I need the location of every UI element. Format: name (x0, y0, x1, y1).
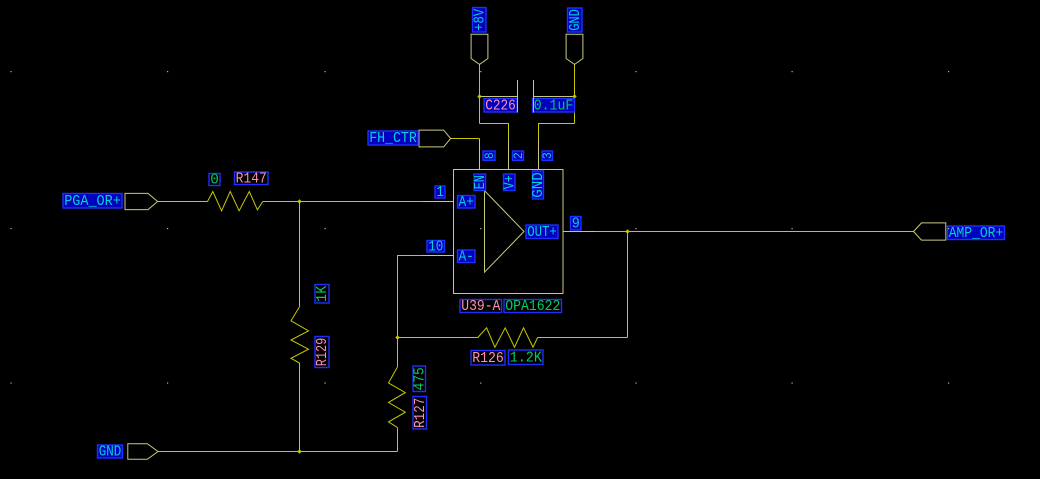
wire capacitor left lead (480, 96, 518, 98)
wire FH_CTR to pin 8 (451, 138, 480, 140)
wire PGA_OR+ to R147 (158, 201, 208, 203)
svg-text:10: 10 (428, 239, 443, 255)
svg-text:0: 0 (210, 173, 219, 189)
svg-text:U39-A: U39-A (461, 299, 500, 315)
wire feedback riser (627, 232, 629, 338)
pin number 1 (435, 185, 445, 201)
svg-text:1: 1 (436, 185, 444, 201)
svg-text:R129: R129 (315, 338, 331, 367)
svg-text:AMP_OR+: AMP_OR+ (949, 226, 1004, 242)
junction R129 GND rail (297, 449, 301, 453)
port PGA_OR+ (125, 193, 158, 209)
pin number 8 (483, 151, 497, 160)
designator R127 (413, 397, 429, 430)
wire GND drop (574, 64, 576, 123)
svg-text:2: 2 (512, 152, 526, 159)
svg-text:PGA_OR+: PGA_OR+ (64, 194, 121, 210)
svg-text:V+: V+ (502, 175, 518, 189)
value OPA1622 (504, 299, 562, 315)
label net PGA_OR+ (63, 194, 122, 210)
svg-text:8: 8 (483, 152, 497, 159)
junction GND capacitor (572, 94, 576, 98)
resistor R127 (389, 367, 406, 428)
designator R129 (315, 337, 331, 368)
value 1.2K (509, 350, 544, 366)
svg-text:R126: R126 (472, 351, 504, 367)
svg-text:R127: R127 (413, 398, 429, 428)
label net AMP_OR+ (948, 226, 1005, 242)
label net GND top (568, 8, 584, 32)
op-amp pin 3 stub (538, 140, 540, 170)
svg-text:GND: GND (99, 445, 122, 461)
op-amp pin 1 stub (423, 201, 454, 203)
designator R126 (471, 351, 505, 367)
wire R126 to riser (538, 337, 628, 339)
label net FH_CTR (368, 131, 418, 147)
wire capacitor right lead (534, 96, 575, 98)
svg-text:R147: R147 (236, 171, 267, 187)
pin name A- (458, 249, 476, 265)
wire pin 10 to feedback node (398, 256, 423, 367)
op-amp pin 10 stub (423, 255, 454, 257)
svg-text:A+: A+ (459, 195, 474, 211)
svg-text:+8V: +8V (472, 9, 488, 31)
wire feedback node to R126 (398, 337, 478, 339)
op-amp pin 2 stub (508, 140, 510, 170)
resistor R147 (208, 192, 263, 211)
svg-text:OUT+: OUT+ (527, 225, 557, 241)
wire GND to pin 3 (539, 124, 575, 140)
pin number 9 (571, 216, 582, 232)
svg-text:475: 475 (412, 367, 428, 390)
power port +8V (471, 34, 488, 64)
wire +8V drop (479, 64, 481, 123)
junction +8V capacitor (477, 94, 481, 98)
wire R147 to pin 1 (263, 201, 423, 203)
svg-text:GND: GND (568, 9, 584, 31)
port FH_CTR (419, 130, 451, 147)
wire OUT to AMP_OR+ (595, 231, 914, 233)
svg-text:9: 9 (572, 216, 580, 232)
capacitor C226 plates (518, 80, 534, 113)
pin name V+ (502, 174, 518, 191)
junction feedback node (395, 335, 399, 339)
svg-text:GND: GND (531, 172, 547, 198)
port AMP_OR+ (914, 223, 946, 240)
wire R127 bottom lead (397, 428, 399, 452)
wire +8V to pin 2 (480, 124, 509, 140)
svg-text:0.1uF: 0.1uF (534, 98, 574, 114)
wire node to R129 (299, 202, 301, 307)
svg-text:FH_CTR: FH_CTR (369, 131, 417, 147)
designator U39-A (460, 299, 502, 315)
value 0 R147 (209, 173, 220, 189)
pin number 10 (427, 239, 445, 255)
pin name GND (531, 171, 547, 199)
pin name A+ (458, 195, 476, 211)
port GND bottom (128, 444, 158, 460)
op-amp pin 9 stub (563, 231, 595, 233)
svg-text:1.2K: 1.2K (510, 350, 542, 366)
value 1K (315, 285, 331, 304)
svg-text:EN: EN (473, 175, 489, 189)
pin name EN (473, 174, 489, 191)
svg-text:A-: A- (459, 249, 474, 265)
svg-text:OPA1622: OPA1622 (505, 299, 560, 315)
svg-text:1K: 1K (315, 286, 331, 302)
svg-text:C226: C226 (485, 98, 516, 114)
power port GND top (566, 34, 583, 64)
pin number 3 (541, 151, 555, 160)
label net GND bottom (98, 445, 123, 461)
designator C226 (484, 98, 517, 114)
pin number 2 (512, 151, 526, 160)
resistor R129 (291, 307, 309, 363)
wire GND rail (158, 451, 398, 453)
junction R147 R129 node (297, 199, 301, 203)
pin name OUT+ (526, 225, 558, 241)
label net +8V (472, 8, 488, 33)
op-amp U39-A body (454, 170, 564, 294)
value 0.1uF (533, 98, 575, 114)
svg-text:3: 3 (541, 152, 555, 159)
wire R129 to GND rail (299, 363, 301, 452)
op-amp pin 8 stub (479, 139, 481, 170)
value 475 (412, 366, 428, 392)
designator R147 (235, 171, 269, 187)
resistor R126 (478, 328, 538, 347)
junction OUT node (625, 229, 629, 233)
